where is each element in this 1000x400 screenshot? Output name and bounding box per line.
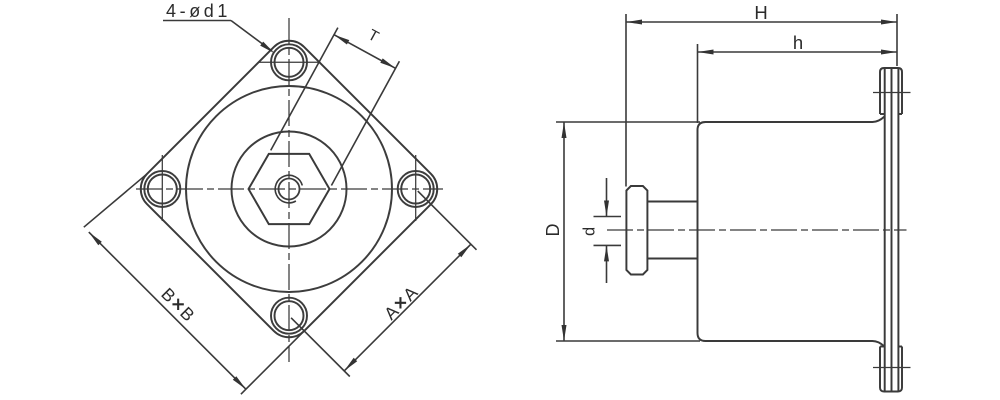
svg-text:h: h xyxy=(793,32,803,53)
svg-text:4-ød1: 4-ød1 xyxy=(166,1,231,21)
svg-text:H: H xyxy=(754,2,767,23)
svg-text:d: d xyxy=(581,227,599,236)
svg-text:D: D xyxy=(543,224,563,237)
